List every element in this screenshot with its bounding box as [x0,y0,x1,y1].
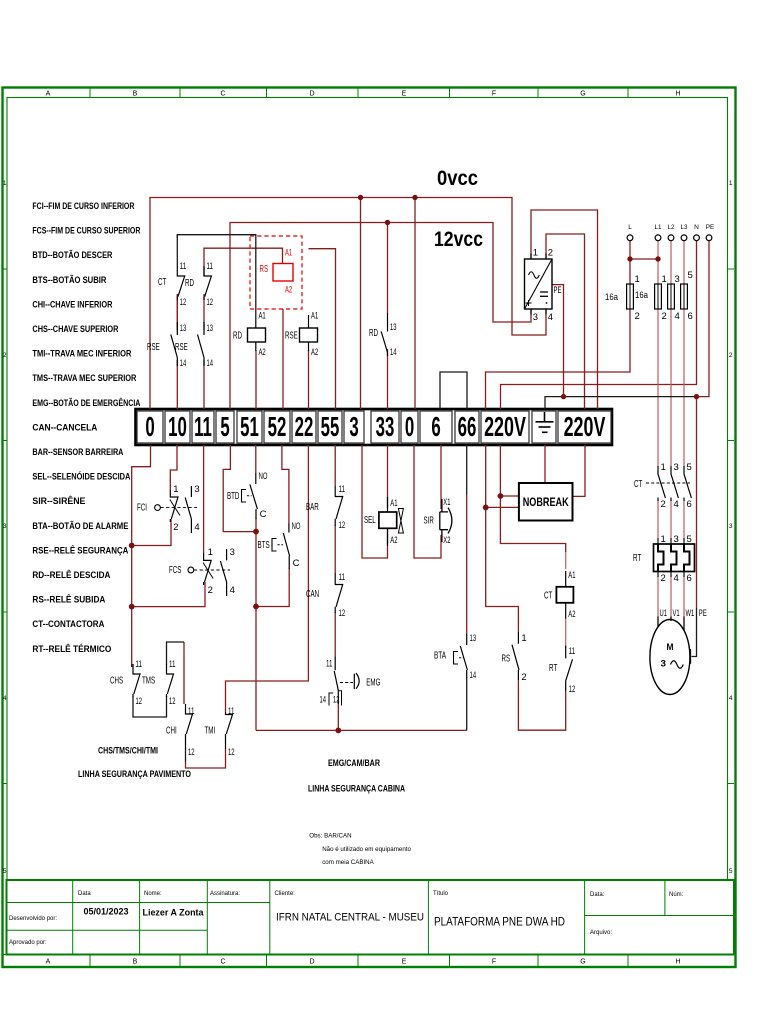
top header strip column tick C/D [266,88,268,98]
contact RSE1 13-14 [171,322,178,366]
solenoid valve glyph [398,509,403,534]
wire PE from mains circle down to PE bus [697,241,710,397]
svg-text:0: 0 [145,411,154,443]
svg-text:A2: A2 [311,347,318,358]
terminal cell 3 [344,411,364,443]
svg-text:1: 1 [173,484,178,495]
motor lead ticks [658,617,684,631]
svg-text:5: 5 [687,462,692,473]
wire terminal 10 to FCI pin1 [170,445,177,490]
svg-text:14: 14 [390,347,397,358]
svg-text:2: 2 [3,352,7,359]
terminal strip outer box [136,409,613,445]
inner drawing frame [7,98,728,881]
svg-text:RS--RELÊ SUBIDA: RS--RELÊ SUBIDA [32,594,105,605]
svg-text:FCS--FIM DE CURSO SUPERIOR: FCS--FIM DE CURSO SUPERIOR [32,226,140,236]
svg-text:BAR--SENSOR BARREIRA: BAR--SENSOR BARREIRA [32,447,123,457]
svg-text:N: N [694,224,699,231]
svg-text:C: C [293,558,300,569]
svg-text:12: 12 [207,297,214,308]
svg-text:11: 11 [207,261,214,272]
svg-text:A2: A2 [259,347,266,358]
wire terminal 220V to NOBREAK dot2 to RS contact [486,445,519,507]
svg-text:CHS: CHS [110,676,123,687]
wire gnd terminal to NOBREAK top [544,445,546,483]
contact RS 1-2 [512,632,519,680]
EMG mushroom button glyph [340,682,353,684]
wire terminal 11 to FCS pin1 [203,445,205,553]
wire PSU pin2 riser to terminal 220Vb [546,234,585,409]
wire RD contact to RSE contact 2 to terminal 11 [203,294,205,330]
wire SEL A1 to terminal 33 [387,445,389,508]
svg-text:A2: A2 [285,285,292,296]
svg-text:11: 11 [326,659,333,670]
svg-text:SIR--SIRÊNE: SIR--SIRÊNE [32,495,85,506]
svg-text:RT--RELÊ TÉRMICO: RT--RELÊ TÉRMICO [32,643,111,654]
svg-text:05/01/2023: 05/01/2023 [83,907,128,917]
contact RD right 13-14 [381,313,387,356]
junction dot BTS C node [253,604,259,610]
svg-text:1: 1 [635,274,640,285]
svg-text:4: 4 [674,499,679,510]
svg-text:11: 11 [339,484,346,495]
svg-text:2: 2 [173,522,178,533]
wire CHI-TMI bottom link [186,748,226,768]
svg-text:12: 12 [169,696,176,707]
svg-text:Título: Título [433,891,449,897]
junction dot PSU PE on bus [561,394,566,399]
svg-text:Desenvolvido por:: Desenvolvido por: [9,916,57,922]
terminal cell 10 [165,411,190,443]
svg-text:A2: A2 [568,609,575,620]
svg-text:BAR: BAR [306,502,319,513]
svg-text:X1: X1 [443,497,450,508]
bottom strip column ticks [89,955,91,967]
svg-text:TMI: TMI [205,726,216,737]
terminal cell 22 [292,411,316,443]
wire terminal 55 to BAR contact chain [334,445,336,486]
contact CT aux 11-12 [177,266,184,300]
svg-text:55: 55 [321,411,340,443]
svg-text:33: 33 [376,411,395,443]
svg-text:A2: A2 [390,535,397,546]
wire terminal 51 to BTD NO [255,445,257,473]
wire TMS to CHI drop [183,642,185,704]
svg-text:M: M [667,642,674,653]
wire FCI pin2 to left bus [132,519,171,546]
svg-text:13: 13 [390,322,397,333]
top header strip column tick G/H [627,88,629,98]
svg-text:RT: RT [633,553,641,564]
svg-text:RSE--RELÊ SEGURANÇA: RSE--RELÊ SEGURANÇA [32,544,128,555]
wire PE column upper segment [696,397,698,608]
top header strip column tick E/F [449,88,451,98]
wire black PE into motor [692,608,697,657]
svg-text:16a: 16a [635,290,649,301]
svg-text:RD--RELÊ DESCIDA: RD--RELÊ DESCIDA [32,569,110,580]
motor PE terminal bar [690,649,692,664]
contactor coil CT [556,587,573,603]
svg-text:1: 1 [729,180,733,187]
bottom letter strip top line [3,954,735,956]
svg-text:SIR: SIR [424,516,434,527]
wire RSE coil A1 riser to terminal 55 [309,249,336,409]
svg-text:Cliente:: Cliente: [275,891,296,897]
svg-text:E: E [402,959,407,966]
wire terminal 220V to NOBREAK dot1 to CT coil A1 [500,445,519,496]
contact EMG 11-12 [334,657,338,704]
svg-text:RSE: RSE [175,342,188,353]
junction dot BTD C node [253,529,259,535]
svg-text:6: 6 [431,411,440,443]
thermal relay RT box [654,544,695,572]
svg-text:RD: RD [233,331,242,342]
svg-text:2: 2 [661,499,666,510]
svg-text:11: 11 [228,706,235,717]
svg-text:A1: A1 [259,311,266,322]
wire L fuse to terminal 220V [629,241,631,284]
wire black terminal 66 to BTA [466,445,468,495]
fuse L2 [668,284,675,309]
wire black jumper terminal 6 to 66 [440,372,467,409]
svg-text:2: 2 [548,248,553,259]
svg-text:5: 5 [3,868,7,875]
svg-text:13: 13 [180,323,187,334]
svg-text:TMS--TRAVA MEC SUPERIOR: TMS--TRAVA MEC SUPERIOR [32,373,136,383]
svg-text:2: 2 [635,311,640,322]
svg-text:13: 13 [207,323,214,334]
svg-text:1: 1 [208,547,213,558]
wire L3 phase column [683,241,685,284]
svg-text:FCS: FCS [169,565,182,576]
svg-text:12: 12 [228,747,235,758]
svg-text:PE: PE [699,608,707,619]
BTS pushbutton actuator [272,539,277,552]
svg-text:11: 11 [188,706,195,717]
svg-text:3: 3 [349,411,358,443]
relay coil RSE [300,328,318,342]
wire terminal 22 to TMI top [226,445,309,712]
junction dot FCS bus [129,604,135,610]
svg-text:SEL: SEL [364,515,376,526]
svg-text:B: B [133,91,138,98]
contact BTS NO-C [283,523,289,569]
terminal cell 52 [264,411,290,443]
wire CT contact bottom segment to RSE [176,294,178,327]
svg-text:2: 2 [661,573,666,584]
svg-text:B: B [133,959,138,966]
relay coil RD [248,328,266,342]
right margin row ticks [728,268,735,270]
svg-text:11: 11 [169,659,176,670]
svg-text:F: F [492,959,496,966]
wire L to L1 bridge [630,258,658,260]
svg-text:CT: CT [158,277,166,288]
title block horizontal lines [7,902,270,904]
svg-text:L: L [628,224,632,231]
svg-text:E: E [402,91,407,98]
EMG terminal bracket [329,691,342,706]
svg-text:com meia CABINA: com meia CABINA [322,859,374,866]
svg-text:22: 22 [295,411,314,443]
svg-text:3: 3 [3,523,7,530]
svg-text:1: 1 [3,180,7,187]
svg-text:11: 11 [136,659,143,670]
wire PSU PE lead [552,285,564,397]
svg-text:52: 52 [268,411,287,443]
wire SEL A2 loop to terminal 3 [362,445,388,558]
contact RT aux 11-12 [566,646,573,691]
contact RD aux 11-12 [204,266,211,300]
wire black CHS TMS bottom U link [133,696,167,717]
svg-text:L3: L3 [681,224,688,231]
svg-text:BTA: BTA [434,651,446,662]
wire RS coil A2 to terminal 52 [282,309,284,409]
mains terminal circles L L1 L2 L3 N PE [627,235,712,241]
svg-text:TMI--TRAVA MEC INFERIOR: TMI--TRAVA MEC INFERIOR [32,349,131,359]
svg-text:NOBREAK: NOBREAK [523,497,570,509]
siren SIR speaker glyph [440,499,452,542]
svg-text:CT: CT [634,479,642,490]
wire terminal 0 loop down-left [132,445,151,664]
svg-text:RSE: RSE [147,342,160,353]
terminal cell ground [532,411,556,443]
svg-text:Não é utilizado em equipamento: Não é utilizado em equipamento [322,846,411,853]
top header strip column tick F/G [537,88,539,98]
svg-text:EMG--BOTÃO DE EMERGÊNCIA: EMG--BOTÃO DE EMERGÊNCIA [32,397,140,408]
svg-text:Aprovado por:: Aprovado por: [9,940,47,946]
svg-text:A: A [46,91,51,98]
wire CAN to EMG [334,612,336,657]
wire cabin safety line [256,729,467,731]
terminal cell 66 [455,411,479,443]
svg-text:CHI: CHI [166,726,177,737]
svg-text:12: 12 [569,684,576,695]
wire BAR to CAN [334,525,336,573]
power supply AC-DC converter U1 [525,259,553,309]
svg-text:4: 4 [729,695,733,702]
svg-text:C: C [220,91,225,98]
wire SIR X1 to terminal 6 [440,445,442,509]
wire 0vcc drop to terminal 3 [360,198,362,410]
left margin row ticks [3,268,8,270]
terminal cell 33 [371,411,399,443]
terminal cell 51 [237,411,262,443]
svg-text:3: 3 [194,484,199,495]
svg-text:51: 51 [240,411,259,443]
svg-text:TMS: TMS [142,676,155,687]
svg-text:6: 6 [688,311,693,322]
wire black CHS top from left bus [131,664,133,667]
wire terminal 5 loop to BTD C node [223,445,256,532]
svg-text:C: C [220,959,225,966]
svg-text:RD: RD [185,278,194,289]
svg-text:4: 4 [194,522,199,533]
fuse L3 [681,284,688,309]
title block vertical dividers [72,880,74,955]
contact CAN 11-12 [335,573,343,613]
relay coil RS red [273,264,293,282]
contact TMS 11-12 [167,664,174,697]
svg-text:CHS--CHAVE SUPERIOR: CHS--CHAVE SUPERIOR [32,324,118,334]
svg-text:RS: RS [260,264,269,275]
svg-text:W1: W1 [686,608,695,619]
BTD pushbutton actuator [242,490,247,503]
wire RD contact top to RS coil A1 [204,248,283,276]
svg-text:12: 12 [339,608,346,619]
wire terminal 52 loop to BTS NO [282,445,289,523]
svg-text:F: F [492,91,496,98]
svg-text:NO: NO [292,521,301,532]
wire CT contact to RSE contact to terminal 10 [176,294,178,330]
terminal cell 11 [192,411,214,443]
svg-text:16a: 16a [605,292,619,303]
svg-text:1: 1 [662,274,667,285]
svg-text:LINHA SEGURANÇA PAVIMENTO: LINHA SEGURANÇA PAVIMENTO [78,769,191,779]
terminal cell 5 [216,411,234,443]
contact TMI 11-12 [226,712,233,749]
svg-text:L2: L2 [668,224,675,231]
svg-text:PLATAFORMA PNE DWA HD: PLATAFORMA PNE DWA HD [434,915,565,929]
svg-text:3: 3 [674,462,679,473]
svg-text:A1: A1 [390,498,397,509]
junction dot 0vcc terminal0b [412,195,417,200]
contact RSE2 13-14 [198,322,205,366]
svg-text:LINHA SEGURANÇA CABINA: LINHA SEGURANÇA CABINA [308,784,405,794]
terminal cell 55 [318,411,342,443]
svg-text:3: 3 [661,659,667,669]
svg-text:H: H [675,91,680,98]
svg-text:EMG/CAM/BAR: EMG/CAM/BAR [328,758,380,768]
junction dot EMG cabin line [335,728,341,734]
svg-text:12: 12 [188,747,195,758]
junction dot NOBREAK upper [498,493,504,499]
terminal cell 6 [420,411,452,443]
svg-text:NO: NO [259,471,268,482]
wire 12vcc drop to RD aux contact [387,223,389,314]
wire N phase down-left to terminal 220V [501,241,697,409]
junction dot 0vcc terminal3 [358,195,363,200]
svg-text:10: 10 [168,411,187,443]
svg-text:14: 14 [207,358,214,369]
svg-text:X2: X2 [443,535,450,546]
svg-text:U1: U1 [660,608,668,619]
svg-text:1: 1 [521,633,526,644]
svg-text:2: 2 [208,585,213,596]
svg-text:1: 1 [533,248,538,259]
FCS actuator circle and dashed link [188,567,194,573]
wire black CT contact upper lead [176,235,178,266]
svg-text:4: 4 [674,573,679,584]
svg-text:220V: 220V [484,411,526,442]
svg-text:3: 3 [674,534,679,545]
wire CT pole outputs to RT [657,500,659,541]
wire CT coil A2 to RT aux contact [565,618,567,648]
top header strip column tick A/B [89,88,91,98]
svg-text:11: 11 [569,646,576,657]
svg-text:H: H [675,959,680,966]
svg-text:5: 5 [729,868,733,875]
svg-text:CT: CT [544,591,552,602]
junction dot L bridge left [627,256,632,261]
svg-text:Arquivo:: Arquivo: [590,930,612,936]
svg-text:12: 12 [333,695,340,706]
svg-text:CAN--CANCELA: CAN--CANCELA [32,422,97,432]
svg-text:Nome:: Nome: [144,891,162,897]
solenoid coil SEL [379,512,397,528]
svg-text:Data: Data [78,891,91,897]
fuse L1 16a [655,284,662,309]
terminal cell 220Vb [558,411,611,443]
svg-text:A: A [46,959,51,966]
svg-text:RD: RD [369,328,378,339]
svg-text:IFRN NATAL CENTRAL - MUSEU: IFRN NATAL CENTRAL - MUSEU [276,912,424,924]
wire NOBREAK right to terminal 220Vb [573,445,586,496]
top header strip column tick D/E [357,88,359,98]
fuse L 16a [627,284,634,309]
junction dot 12vcc RD aux [385,220,390,225]
svg-text:3: 3 [533,312,538,323]
wire BTA red segment [466,495,468,635]
wire black TMS top to CHI riser [167,642,185,665]
svg-text:220V: 220V [564,411,606,442]
contact BTA 13-14 [460,634,467,678]
wire RD coil A2 to terminal 51 [255,350,257,409]
svg-text:D: D [309,91,314,98]
svg-text:2: 2 [521,672,526,683]
svg-text:1: 1 [661,534,666,545]
svg-text:6: 6 [687,499,692,510]
svg-text:A1: A1 [285,248,292,259]
limit switch FCS contact2 stub [220,549,226,596]
svg-text:BTD: BTD [227,491,239,502]
svg-text:BTD--BOTÃO DESCER: BTD--BOTÃO DESCER [32,250,112,260]
svg-text:PE: PE [554,285,562,296]
terminal cell 0 [137,411,163,443]
limit switch FCS contact1 with cross [204,553,212,585]
svg-text:14: 14 [470,670,477,681]
RT heater element glyphs [658,544,664,572]
wire 0vcc rail [150,198,546,410]
svg-text:4: 4 [548,312,553,323]
svg-text:12: 12 [180,297,187,308]
svg-text:PE: PE [706,224,715,231]
svg-text:3: 3 [230,547,235,558]
junction dot NOBREAK lower [483,505,489,511]
svg-text:12vcc: 12vcc [434,228,483,251]
svg-text:SEL--SELENÓIDE DESCIDA: SEL--SELENÓIDE DESCIDA [32,471,130,482]
wire SIR X2 loop to terminal 0b [414,445,441,558]
contact BAR 11-12 [335,486,343,526]
svg-text:D: D [309,959,314,966]
svg-text:14: 14 [180,358,187,369]
wire RD aux to terminal 33 [387,349,389,409]
svg-text:2: 2 [729,352,733,359]
svg-text:4: 4 [3,695,7,702]
svg-text:5: 5 [220,411,229,443]
svg-text:CHS/TMS/CHI/TMI: CHS/TMS/CHI/TMI [98,746,158,756]
wire PSU pin1 riser to terminal 220Vb [531,210,598,409]
wire BTD C down through BTS node to cabin line [255,518,257,730]
svg-text:Obs: BAR/CAN: Obs: BAR/CAN [309,833,351,840]
svg-text:5: 5 [688,270,693,281]
svg-text:0: 0 [405,411,414,443]
NOBREAK box [519,483,573,521]
contact CHS 11-12 [133,664,140,697]
top header strip column tick B/C [179,88,181,98]
limit switch FCI contact1 with cross [170,490,178,522]
wire FCS pin2 to left bus [132,582,205,607]
